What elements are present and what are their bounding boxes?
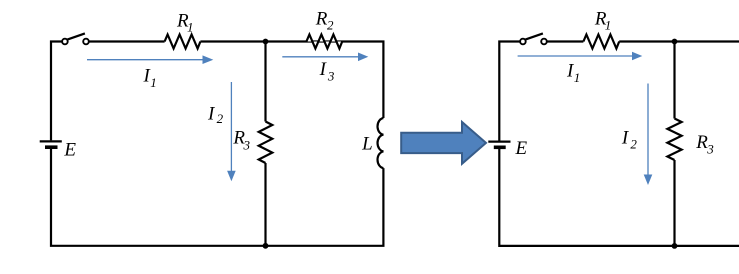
wire: left circuit top-left corner segment to switch <box>51 42 62 141</box>
current arrow I3 head (left circuit) <box>358 53 368 62</box>
svg-text:2: 2 <box>217 111 224 126</box>
wire: right circuit left branch lower and bottom wire to right edge <box>499 149 739 246</box>
big transform arrow between circuits <box>401 122 486 164</box>
wire: right circuit R1 to right edge <box>619 40 739 42</box>
resistor R3 (right circuit, vertical) <box>667 119 681 161</box>
current arrow I2 head (left circuit) <box>227 171 236 182</box>
svg-text:E: E <box>515 138 528 159</box>
current arrow I2 head (right circuit) <box>644 175 653 186</box>
svg-text:2: 2 <box>630 136 637 151</box>
switch (left circuit) blade <box>67 33 85 39</box>
svg-text:1: 1 <box>574 70 581 85</box>
current arrow I1 line (left circuit) <box>87 59 203 61</box>
current arrow I2 line (right circuit) <box>647 84 649 176</box>
current arrow I1 line (right circuit) <box>518 55 633 57</box>
wire: left circuit left branch lower, bottom wire, right branch lower <box>51 149 383 246</box>
battery E (left circuit) long plate <box>40 140 62 142</box>
switch (left circuit) left contact circle <box>62 39 68 45</box>
wire: left circuit middle branch lower (R3 to bottom) <box>264 163 266 246</box>
node junction dot (right circuit, bottom) <box>672 243 678 249</box>
svg-text:1: 1 <box>605 17 612 32</box>
current arrow I1 head (right circuit) <box>632 52 642 61</box>
wire: right circuit right branch upper (node to R3) <box>673 42 675 119</box>
battery E (right circuit) long plate <box>488 141 510 143</box>
battery E (right circuit) short thick plate <box>494 146 506 150</box>
svg-text:2: 2 <box>327 17 334 32</box>
svg-text:3: 3 <box>243 137 251 152</box>
battery E (left circuit) short thick plate <box>45 145 58 149</box>
svg-text:E: E <box>63 139 76 160</box>
wire: right circuit switch to R1 <box>547 40 584 42</box>
wire: right circuit right branch lower (R3 to bottom) <box>673 160 675 246</box>
resistor R1 (left circuit) <box>165 35 201 49</box>
resistor R3 (left circuit, vertical) <box>259 122 273 164</box>
svg-text:L: L <box>361 134 373 155</box>
current arrow I1 head (left circuit) <box>203 55 214 64</box>
wire: left circuit switch to R1 <box>89 40 165 42</box>
switch (right circuit) left contact circle <box>520 39 526 45</box>
node junction dot (left circuit, bottom) <box>263 243 269 249</box>
wire: left circuit R1 to top-right corner and down to inductor <box>200 42 383 119</box>
svg-text:1: 1 <box>150 75 157 90</box>
node junction dot (left circuit, top between R1 and R2) <box>263 39 269 45</box>
svg-text:3: 3 <box>706 142 714 157</box>
svg-text:3: 3 <box>327 68 335 83</box>
current arrow I3 line (left circuit) <box>282 56 358 58</box>
wire: left circuit middle branch upper (node to R3) <box>264 42 266 122</box>
switch (right circuit) right contact circle <box>541 39 547 45</box>
inductor L (left circuit) <box>378 118 384 168</box>
switch (left circuit) right contact circle <box>83 39 89 45</box>
svg-text:1: 1 <box>187 20 194 35</box>
resistor R1 (right circuit) <box>583 35 619 49</box>
node junction dot (right circuit, top) <box>672 39 678 45</box>
switch (right circuit) blade <box>525 33 543 39</box>
wire: right circuit top-left corner segment to switch <box>499 42 520 141</box>
current arrow I2 line (left circuit) <box>230 82 232 172</box>
svg-text:R: R <box>315 8 328 29</box>
resistor R2 (left circuit) <box>306 35 342 49</box>
